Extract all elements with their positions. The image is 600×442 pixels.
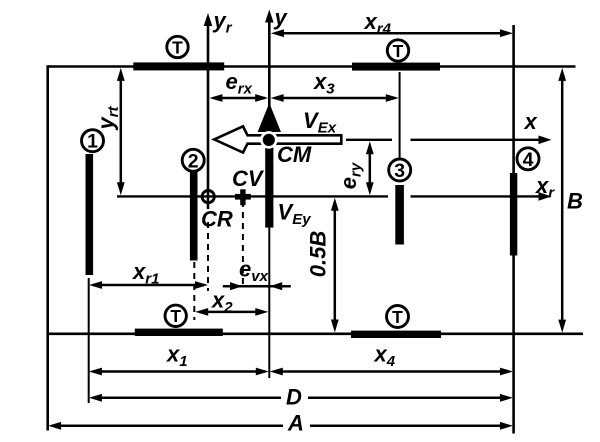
force arrow V_Ey shaft bbox=[265, 126, 273, 228]
y axis bbox=[265, 10, 274, 108]
dimension D bbox=[89, 394, 513, 402]
svg-text:T: T bbox=[170, 306, 181, 326]
dimension x_2 bbox=[195, 308, 268, 316]
wall 2 centerline dashed extension bbox=[193, 262, 195, 320]
wall T bottom-right slab bbox=[351, 331, 441, 338]
CV plus marker bbox=[235, 189, 251, 205]
CV dashed extension line bbox=[242, 201, 244, 287]
x_2 label bbox=[211, 288, 233, 317]
svg-text:T: T bbox=[392, 307, 403, 327]
x axis label bbox=[524, 109, 538, 134]
wall 3 slab bbox=[395, 185, 404, 245]
CM label bbox=[277, 142, 312, 167]
y axis extension below V_Ey bbox=[268, 228, 270, 378]
wall T top-right slab bbox=[352, 63, 440, 71]
svg-text:4: 4 bbox=[523, 149, 534, 171]
dimension e_rx bbox=[209, 94, 268, 102]
dimension y_rt bbox=[117, 68, 125, 195]
svg-text:A: A bbox=[287, 411, 304, 436]
wall 2 label circle bbox=[182, 149, 204, 172]
wall 1 extension line bbox=[88, 278, 90, 403]
force arrow V_Ey head bbox=[258, 103, 281, 132]
svg-text:CR: CR bbox=[201, 207, 233, 232]
svg-text:B: B bbox=[567, 189, 583, 214]
CR label bbox=[201, 207, 233, 232]
e_ry label bbox=[336, 162, 365, 189]
svg-text:y: y bbox=[274, 5, 289, 30]
0.5B label bbox=[306, 231, 331, 278]
svg-text:3: 3 bbox=[394, 160, 405, 182]
force arrow V_Ex outline bbox=[214, 126, 341, 152]
svg-text:T: T bbox=[172, 37, 183, 57]
y axis label bbox=[274, 5, 289, 30]
CV label bbox=[232, 166, 265, 191]
x_3 label bbox=[313, 69, 335, 98]
wall 1 label circle bbox=[82, 130, 104, 153]
CR center-of-rigidity symbol bbox=[202, 191, 214, 203]
e_rx label bbox=[226, 69, 253, 98]
y_rt label bbox=[94, 105, 123, 130]
wall 1 slab bbox=[86, 154, 94, 275]
T circle bottom-left bbox=[165, 305, 186, 326]
svg-text:D: D bbox=[286, 385, 302, 410]
e_vx label bbox=[239, 257, 269, 286]
V_Ex label bbox=[303, 108, 337, 137]
svg-text:2: 2 bbox=[188, 150, 199, 172]
x_r axis label bbox=[535, 173, 555, 202]
svg-text:CM: CM bbox=[277, 142, 312, 167]
x_r1 label bbox=[132, 259, 159, 288]
dimension x_4 bbox=[270, 368, 513, 376]
wall 3 label circle bbox=[389, 159, 411, 182]
T circle top-left bbox=[167, 36, 188, 57]
building outline left edge bbox=[46, 65, 49, 430]
B label bbox=[567, 189, 583, 214]
x axis bbox=[346, 136, 552, 145]
building outline right edge / wall 4 centerline bbox=[512, 25, 515, 434]
wall 2 slab bbox=[190, 172, 198, 261]
svg-text:1: 1 bbox=[87, 131, 98, 153]
T circle bottom-right bbox=[387, 306, 409, 328]
x_r axis bbox=[117, 192, 552, 201]
dimension e_ry bbox=[366, 141, 374, 195]
dimension x_3 bbox=[271, 94, 399, 102]
y_r axis dashed extension below CR bbox=[207, 222, 209, 291]
dimension x_1 bbox=[89, 368, 269, 376]
wall 4 label circle bbox=[517, 148, 539, 171]
wall 3 centerline extension bbox=[399, 72, 401, 159]
T circle top-right bbox=[387, 40, 408, 61]
dimension B bbox=[558, 68, 566, 333]
y_r axis bbox=[204, 13, 213, 209]
svg-text:T: T bbox=[393, 41, 404, 61]
x_4 label bbox=[374, 342, 396, 371]
wall 4 slab bbox=[510, 173, 517, 256]
svg-text:x: x bbox=[524, 109, 538, 134]
dimension 0.5B bbox=[331, 198, 339, 333]
CM center-of-mass dot bbox=[260, 131, 278, 149]
V_Ey label bbox=[278, 200, 312, 229]
dimension e_vx bbox=[223, 282, 291, 290]
svg-text:CV: CV bbox=[232, 166, 265, 191]
wall T bottom-left slab bbox=[135, 329, 223, 336]
A label bbox=[287, 411, 304, 436]
dimension x_r4 bbox=[271, 29, 513, 37]
D label bbox=[286, 385, 302, 410]
x_1 label bbox=[166, 342, 188, 371]
dimension x_r1 bbox=[89, 281, 208, 289]
wall T top-left slab bbox=[133, 62, 224, 70]
svg-text:0.5B: 0.5B bbox=[306, 231, 331, 278]
building outline bottom edge bbox=[48, 332, 583, 335]
y_r axis label bbox=[213, 8, 233, 37]
building outline top edge bbox=[48, 65, 576, 68]
x_r4 label bbox=[364, 9, 392, 38]
dimension A bbox=[48, 422, 513, 430]
